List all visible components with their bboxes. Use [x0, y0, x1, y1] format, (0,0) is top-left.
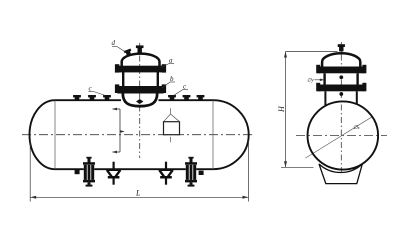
svg-text:L: L	[135, 189, 141, 198]
H dimension line	[285, 52, 287, 168]
left head weld seam	[54, 100, 56, 169]
centerline bolts (end view)	[339, 75, 343, 79]
nameplate roof leaders	[164, 114, 180, 122]
end view diagonal centerline	[306, 117, 372, 158]
inner dimension mid arrow	[120, 130, 125, 133]
manhole shell between flanges (side view)	[122, 72, 124, 87]
end view vertical centerline	[340, 42, 342, 178]
bottom funnel valve right at x=166	[159, 162, 173, 185]
inner dimension top tick with arrow	[113, 108, 121, 110]
tank shell outline (side view)	[55, 99, 121, 101]
nameplate vertical dashes	[170, 108, 172, 114]
manhole lower flange (end view)	[319, 85, 364, 92]
svg-text:∅y: ∅y	[307, 78, 314, 84]
saddle support	[319, 164, 362, 184]
bottom valve (hatched cylinder) left at x=89	[83, 157, 95, 187]
manhole dished bottom (side view)	[123, 94, 157, 107]
end view horizontal centerline	[296, 135, 387, 137]
manhole cap (side view)	[122, 54, 160, 67]
centerline horizontal (side view)	[22, 134, 255, 136]
L dimension extension line right	[248, 140, 250, 202]
bottom small stub right	[199, 171, 204, 175]
tank circle (end view)	[308, 101, 379, 169]
manhole top stub (end view)	[339, 47, 343, 52]
manhole top center stub	[138, 48, 142, 53]
top nozzles c (six)	[73, 95, 204, 100]
manhole upper flange (end view)	[319, 67, 364, 74]
right head weld seam	[212, 100, 214, 169]
L dimension extension line left	[29, 140, 31, 202]
nameplate box	[164, 122, 180, 135]
manhole lower flange (side view)	[117, 86, 163, 94]
bottom small stub left	[75, 170, 80, 174]
upper flange bolts	[115, 64, 119, 72]
manhole upper flange (side view)	[117, 66, 163, 73]
inner level dimension vertical line	[119, 109, 121, 152]
manhole cap (end view)	[322, 53, 360, 67]
svg-text:d: d	[112, 39, 116, 47]
manhole drain diamond	[136, 99, 143, 104]
manhole neck to circle (end view)	[324, 91, 326, 105]
L dimension line	[30, 196, 248, 198]
bottom funnel valve left at x=113.6	[106, 162, 120, 185]
dome vertical centerline (side view)	[139, 43, 141, 158]
H bottom extension line	[281, 166, 314, 168]
bottom valve (hatched cylinder) right at x=191	[185, 157, 197, 187]
inner dimension bottom tick with arrow	[113, 151, 121, 153]
H top extension line	[286, 51, 338, 53]
manhole shell (end view)	[323, 73, 325, 85]
lower flange bolts	[115, 84, 119, 93]
manhole top-left nozzle d	[124, 49, 133, 57]
